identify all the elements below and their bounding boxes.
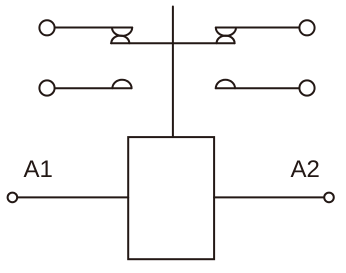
svg-text:A2: A2 (291, 156, 320, 183)
svg-text:A1: A1 (24, 156, 53, 183)
